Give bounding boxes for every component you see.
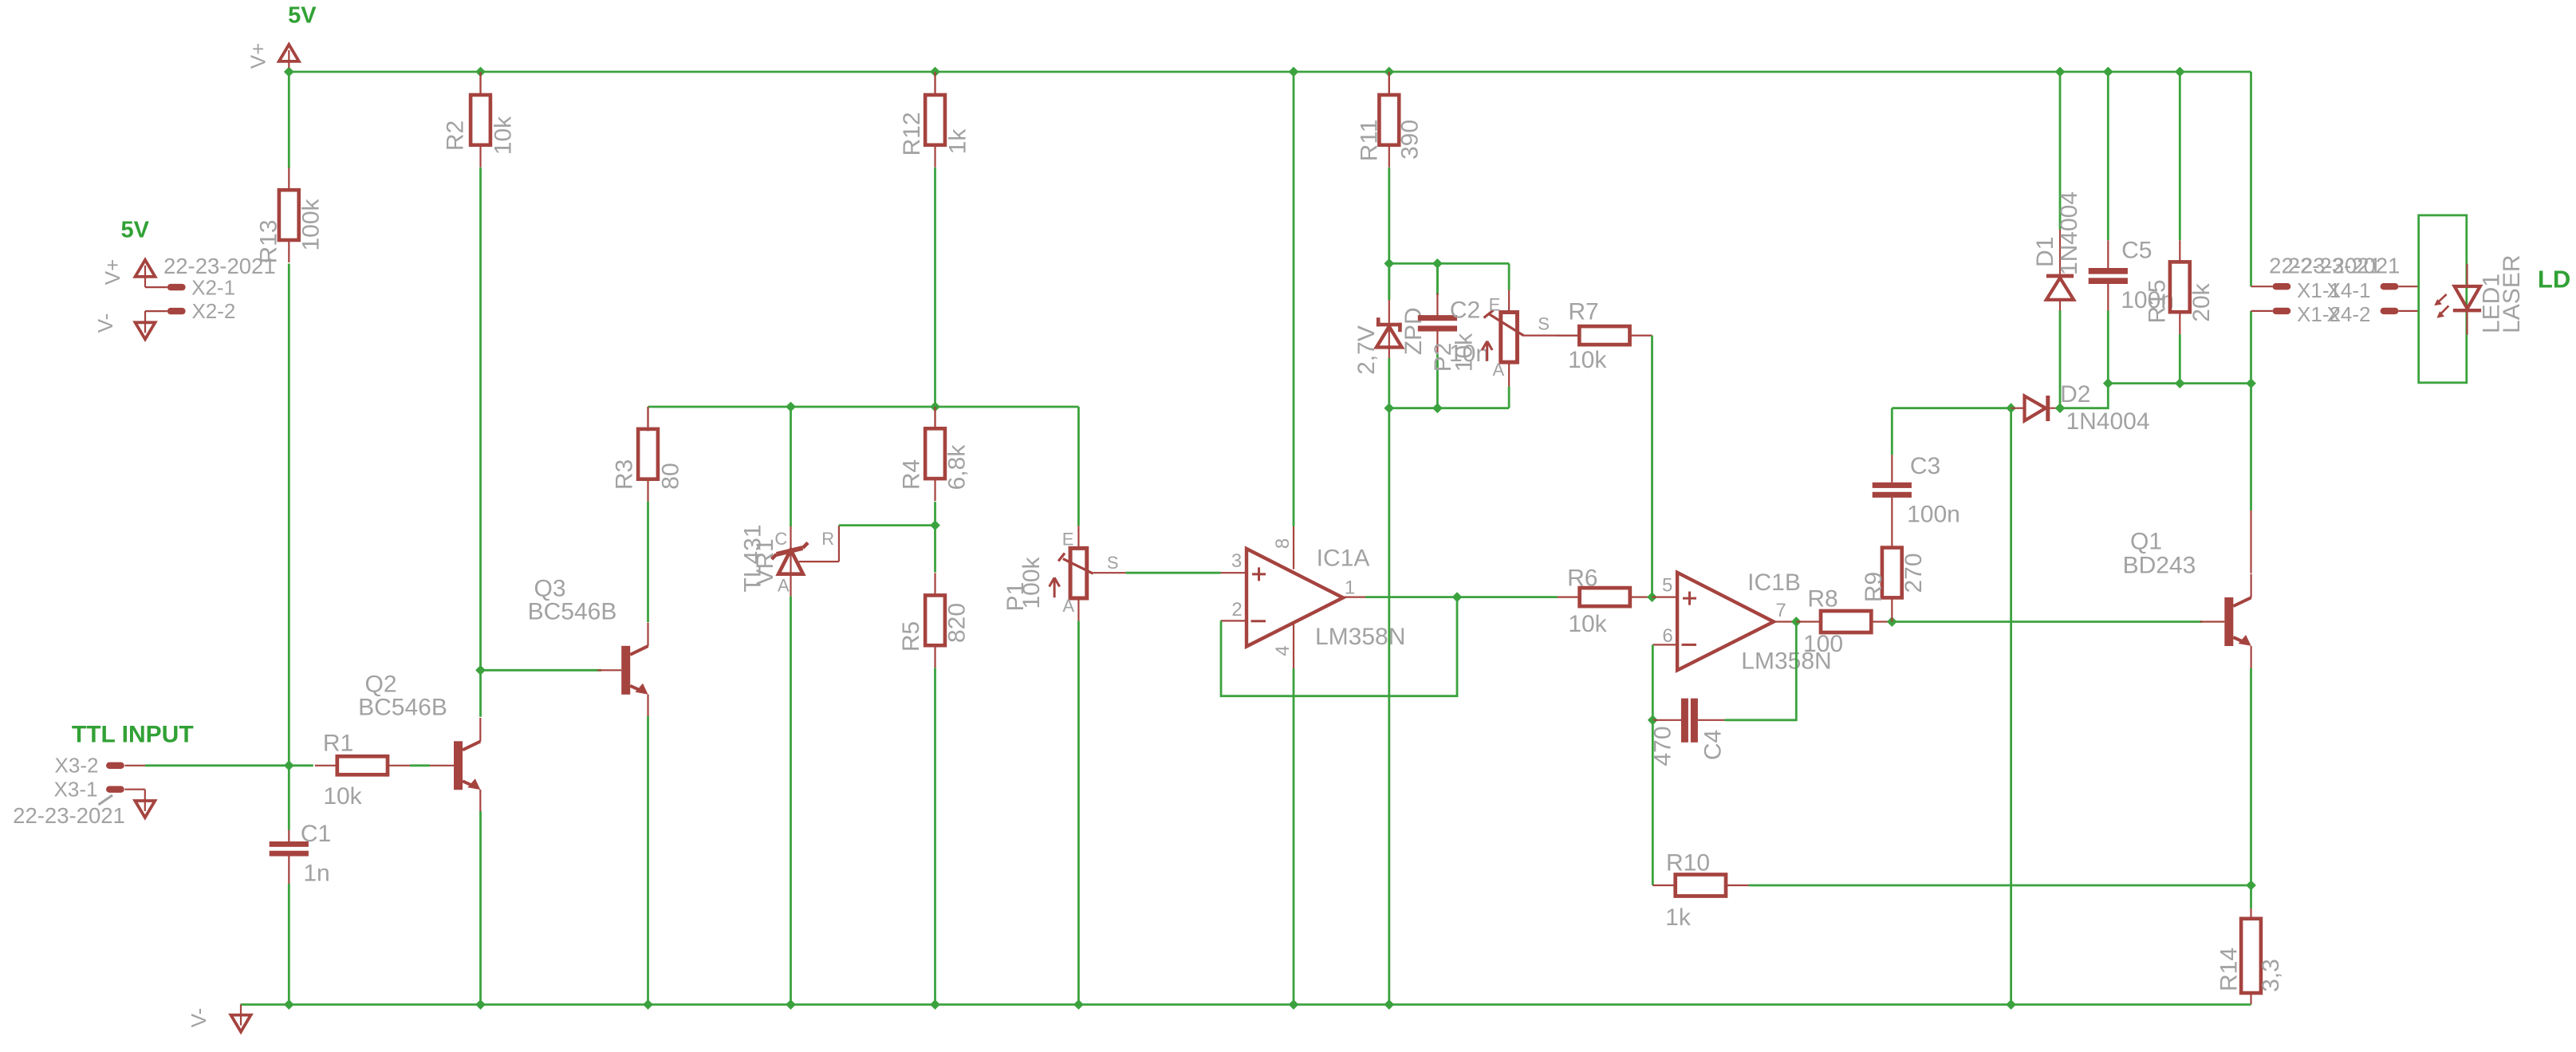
junction top rail / V+ supply (284, 67, 294, 77)
svg-text:R6: R6 (1567, 565, 1597, 591)
pin S of P1 (1093, 572, 1126, 573)
wire R12 column upper (934, 72, 935, 95)
supply V- symbol at X2-2 (136, 322, 156, 339)
wire P2 bottom to zener bottom rail (1508, 387, 1511, 408)
svg-text:3,3: 3,3 (2258, 959, 2284, 992)
junction R8/R9/Q1 base node (1887, 617, 1897, 627)
svg-text:5: 5 (1662, 574, 1672, 596)
wire C5 column upper (2107, 72, 2109, 240)
junction mid rail / TL431 (786, 402, 796, 412)
resistor R13 (288, 167, 290, 190)
wire Q2 emitter to ground rail (479, 811, 482, 1004)
resistor R6 (1558, 596, 1580, 597)
svg-text:R9: R9 (1861, 572, 1887, 602)
svg-text:R12: R12 (899, 112, 925, 156)
junction LD rail / X column (2246, 378, 2256, 388)
junction ground rail / Q2 (475, 999, 486, 1010)
wire TL431 anode to ground rail (790, 597, 792, 1005)
pin wire X4-1 to X column (2251, 286, 2273, 287)
connector pin X1-1/X4-1 left (2273, 283, 2291, 290)
wire zener to bottom node (1388, 358, 1390, 408)
pin wire X4-2 to X column (2251, 310, 2273, 312)
pin 5 of IC1B (1652, 596, 1678, 597)
svg-text:R7: R7 (1568, 299, 1598, 325)
supply V- symbol (ground rail) (240, 1005, 242, 1015)
svg-text:22-23-2021: 22-23-2021 (163, 254, 276, 278)
svg-text:1k: 1k (945, 128, 971, 155)
capacitor C1 (288, 766, 290, 830)
resistor R9 (1882, 548, 1902, 598)
svg-text:R11: R11 (1357, 120, 1383, 162)
connector pin X2-1 (167, 284, 186, 290)
wire LD rail drop to D2 row (2060, 384, 2108, 408)
svg-text:22-23-2021: 22-23-2021 (13, 803, 125, 828)
svg-text:10k: 10k (1568, 347, 1607, 373)
junction IC1A output (1452, 592, 1463, 602)
junction C4 left node (1648, 715, 1658, 725)
svg-text:C3: C3 (1910, 453, 1940, 479)
wire zener bottom rail (1389, 407, 1509, 409)
wire zener branch top (R11 to P2) (1389, 262, 1509, 265)
pin 2 of IC1A (1221, 620, 1247, 621)
svg-text:R1: R1 (323, 731, 353, 757)
junction TTL node (284, 760, 294, 770)
capacitor C3 (1891, 455, 1893, 482)
svg-text:V+: V+ (100, 259, 124, 286)
supply V+ symbol at X2-1 (136, 260, 156, 277)
svg-text:VR1: VR1 (752, 538, 778, 585)
diode D2 1N4004 (2011, 408, 2024, 409)
svg-text:C5: C5 (2121, 237, 2152, 263)
wire R3 to Q3 collector (647, 502, 649, 622)
pin wire X2-1 to V+ (144, 278, 146, 287)
connector pin X3-1 (106, 786, 124, 793)
svg-text:2: 2 (1231, 599, 1242, 621)
wire R1 to Q2 base (410, 764, 430, 766)
wire IC1A pin4 column (V-) (1293, 668, 1295, 1005)
transistor Q1 BD243 (2250, 510, 2251, 573)
svg-text:100: 100 (1803, 631, 1843, 657)
pin wire X2-2 to V- (145, 310, 167, 312)
svg-text:C2: C2 (1450, 297, 1480, 324)
svg-text:3: 3 (1231, 550, 1242, 572)
junction Q3 base tap (475, 665, 486, 676)
pin wire X4-1 to LED box (2398, 286, 2418, 287)
svg-text:BC546B: BC546B (528, 599, 617, 625)
svg-text:X3-1: X3-1 (54, 778, 98, 802)
svg-text:IC1A: IC1A (1317, 546, 1370, 572)
diode D1 1N4004 (2059, 230, 2061, 274)
svg-text:820: 820 (944, 603, 971, 643)
wire R2 column upper (479, 72, 481, 95)
junction ground rail / R5 (930, 999, 940, 1010)
wire LD rail (2108, 382, 2251, 384)
svg-text:R15: R15 (2145, 279, 2171, 323)
op-amp IC1A (1247, 549, 1343, 647)
junction top rail / IC1A pin8 column (1289, 67, 1299, 77)
junction mid rail / R4 (930, 402, 940, 412)
svg-text:100k: 100k (298, 198, 325, 250)
svg-text:R2: R2 (443, 120, 469, 151)
connector pin X2-2 (167, 308, 186, 314)
resistor R14 (2250, 908, 2251, 919)
svg-text:5V: 5V (121, 218, 150, 243)
pin 3 of IC1A (1221, 572, 1247, 573)
svg-text:LM358N: LM358N (1315, 624, 1405, 650)
svg-text:1N4004: 1N4004 (2066, 408, 2149, 435)
wire P1 wiper to IC1A pin3 (1125, 572, 1220, 574)
wire IC1A output to R6 (1365, 596, 1457, 598)
potentiometer P2 (1508, 263, 1511, 290)
pin 1 of IC1A (1343, 596, 1365, 597)
svg-text:10k: 10k (1451, 333, 1478, 372)
zener diode ZPD 2,7V (1388, 263, 1390, 300)
svg-text:E: E (1062, 529, 1074, 549)
svg-text:8: 8 (1272, 538, 1294, 549)
junction zener top / C2 (1432, 258, 1443, 269)
junction IC1B output (1791, 617, 1802, 627)
LED LED1 inside module (2466, 264, 2468, 286)
wire mid rail (R3/TL431/R4/R12/P1 row) (648, 406, 1079, 408)
svg-text:LASER: LASER (2499, 255, 2525, 333)
resistor R15 (2179, 240, 2180, 262)
svg-text:R10: R10 (1666, 849, 1710, 876)
stray mark near X3-1 (99, 795, 113, 805)
svg-text:4: 4 (1272, 645, 1294, 656)
junction R6/R7/IC1B+ node (1647, 592, 1657, 602)
svg-text:Q1: Q1 (2130, 529, 2162, 555)
svg-text:R8: R8 (1807, 586, 1837, 613)
wire R12 to mid rail (934, 167, 936, 407)
pin 7 wire to R8 (1796, 621, 1821, 622)
wire C4 right to IC1B output (1724, 622, 1796, 720)
pin 4 of IC1A (1293, 623, 1294, 668)
resistor R10 (1652, 885, 1676, 886)
junction top rail / R2 (475, 67, 486, 77)
svg-text:X4-1: X4-1 (2327, 278, 2371, 302)
svg-text:X4-2: X4-2 (2327, 302, 2371, 326)
junction LD rail / C5 (2103, 378, 2113, 388)
junction top rail / R11 (1384, 67, 1394, 77)
wire X3-2 to R1 node (124, 765, 145, 766)
resistor R4 (934, 407, 935, 429)
junction ground rail / zener column (1384, 999, 1394, 1010)
junction ground rail / VR1 (786, 999, 796, 1010)
junction top rail / R12 (930, 67, 940, 77)
resistor R7 (1557, 335, 1579, 337)
svg-text:22-23-2021: 22-23-2021 (2288, 254, 2401, 278)
module box LED1 LASER (2419, 215, 2467, 383)
junction D2 anode node (2006, 403, 2016, 413)
op-amp IC1B (1677, 573, 1774, 671)
svg-text:270: 270 (1900, 553, 1927, 593)
pin 6 of IC1B (1652, 644, 1677, 645)
svg-text:1n: 1n (303, 860, 329, 886)
light arrows of LED1 (2438, 294, 2446, 301)
wire P1 bottom to ground rail (1077, 621, 1080, 1005)
svg-text:E: E (1489, 295, 1501, 315)
wire C3 column from D2 row (1891, 408, 1893, 455)
svg-text:2,7V: 2,7V (1353, 325, 1380, 375)
svg-text:V-: V- (187, 1008, 211, 1028)
svg-text:390: 390 (1397, 120, 1424, 160)
svg-text:R5: R5 (898, 621, 924, 652)
svg-text:R4: R4 (898, 459, 924, 490)
svg-text:V-: V- (93, 313, 117, 333)
junction zener bottom / zener (1384, 403, 1394, 413)
resistor R12 (934, 73, 935, 95)
junction top rail / D1 (2055, 67, 2066, 77)
svg-text:C1: C1 (301, 821, 331, 847)
svg-text:100n: 100n (1907, 501, 1960, 527)
wire IC1B pin6 to C4 node (1652, 644, 1654, 719)
pin 7 of IC1B (1774, 621, 1796, 622)
svg-text:R3: R3 (612, 459, 638, 490)
wire C1 to ground rail (288, 884, 290, 1005)
junction D2 cathode / D1 (2055, 403, 2066, 413)
pin wire X3-1 to V- (124, 789, 144, 790)
capacitor C5 (2107, 240, 2109, 268)
capacitor C2 (1436, 263, 1439, 295)
wire Q1 emitter to R14 node (2250, 668, 2252, 885)
svg-text:6,8k: 6,8k (944, 444, 971, 491)
pin R of VR1 (799, 561, 839, 562)
wire D1 to D2 cathode (2059, 311, 2062, 408)
junction R14 top node (2246, 881, 2256, 891)
wire D1 column upper (2059, 72, 2062, 230)
junction top rail / R15 (2175, 67, 2185, 77)
wire Q2 collector node to Q3 base (481, 669, 602, 672)
svg-text:7: 7 (1775, 600, 1786, 621)
svg-text:A: A (1492, 360, 1504, 380)
svg-text:A: A (1062, 596, 1074, 616)
junction zener top / R11 (1384, 258, 1394, 269)
potentiometer P1 (1077, 526, 1079, 548)
junction LD rail / R15 (2175, 378, 2185, 388)
junction ground rail / C1 (284, 999, 294, 1010)
pin 8 of IC1A (1293, 526, 1294, 569)
wire R13 column to TTL node (288, 264, 290, 766)
svg-text:V+: V+ (246, 43, 270, 69)
transistor Q3 (621, 646, 630, 695)
wire V+ top rail (289, 71, 2251, 73)
svg-text:BC546B: BC546B (358, 695, 447, 721)
junction zener bottom / C2 (1432, 403, 1443, 413)
svg-text:IC1B: IC1B (1747, 569, 1801, 596)
transistor Q2 (454, 741, 463, 790)
svg-text:BD243: BD243 (2123, 553, 2196, 579)
junction ground rail / Q3 (643, 999, 653, 1010)
wire X column (X4-2 to Q1 collector) (2250, 311, 2252, 510)
shunt reference VR1 TL431 (790, 526, 791, 574)
wire VR1 R pin to R4/R5 node (839, 524, 935, 526)
junction top rail / C5 (2103, 67, 2113, 77)
wire D2 node down to ground rail (2010, 408, 2012, 1005)
resistor R11 (1388, 73, 1390, 95)
wire D2 anode row (1892, 407, 2011, 409)
wire C4 node down to R10 (1652, 720, 1654, 885)
resistor R5 (934, 573, 935, 595)
svg-text:X2-2: X2-2 (191, 299, 235, 323)
pin wire X4-2 to LED box (2398, 310, 2418, 312)
resistor R8 (1821, 611, 1871, 632)
resistor R2 (479, 73, 481, 95)
svg-text:6: 6 (1662, 625, 1672, 647)
connector pin X3-2 (106, 762, 124, 769)
wire ground rail (241, 1003, 2251, 1006)
resistor R3 (647, 407, 648, 431)
wire R15 to LD rail (2179, 334, 2181, 384)
wire C5 to LD rail (2107, 311, 2109, 384)
wire R15 column upper (2179, 72, 2181, 240)
pin S of P2 to R7 (1523, 335, 1579, 337)
svg-text:X2-1: X2-1 (191, 276, 235, 300)
svg-text:R: R (821, 529, 834, 549)
wire IC1A pin8 column (V+) (1293, 72, 1295, 526)
wire R11 column upper (1388, 72, 1390, 95)
wire R7 to IC1B+ node (1651, 336, 1653, 597)
svg-text:20k: 20k (2188, 282, 2215, 321)
supply V- symbol at X3-1 (135, 801, 155, 818)
svg-text:1k: 1k (1665, 904, 1692, 931)
wire R4 to node (934, 502, 936, 526)
wire IC1A feedback (1221, 597, 1457, 696)
svg-text:D2: D2 (2060, 381, 2090, 408)
wire zener column to ground rail (1388, 408, 1390, 1005)
junction ground rail / P1 (1073, 999, 1084, 1010)
svg-text:C4: C4 (1700, 730, 1727, 760)
wire Q3 emitter to ground rail (647, 716, 649, 1005)
svg-text:X3-2: X3-2 (55, 753, 99, 777)
wire R11 to zener node (1388, 167, 1390, 263)
capacitor C4 (1652, 719, 1681, 721)
wire R13 column upper (288, 72, 290, 168)
svg-text:1: 1 (1345, 577, 1355, 599)
svg-text:S: S (1538, 313, 1550, 333)
svg-text:R14: R14 (2216, 948, 2243, 991)
wire R5 to ground rail (934, 668, 936, 1004)
junction R4/R5/VR1-R node (930, 520, 940, 530)
svg-text:S: S (1107, 553, 1119, 573)
svg-text:A: A (778, 575, 790, 595)
svg-text:10k: 10k (490, 116, 517, 155)
connector pin X1-2/X4-2 left (2273, 308, 2291, 314)
wire R2 to Q2 collector (479, 167, 482, 717)
junction ground rail / IC1A pin4 (1289, 999, 1299, 1010)
svg-text:5V: 5V (288, 2, 317, 28)
svg-text:80: 80 (658, 463, 684, 489)
wire X column (V+ to X4-1) (2250, 72, 2252, 286)
wire R14 node down (2250, 885, 2252, 908)
connector pin X4-1 right (2381, 283, 2399, 290)
wire R10 to R14 top node (1749, 885, 2251, 887)
svg-text:1N4004: 1N4004 (2056, 191, 2082, 275)
svg-text:10k: 10k (1568, 611, 1607, 637)
svg-text:10k: 10k (323, 783, 362, 810)
wire node to R5 (934, 526, 936, 573)
wire mid rail corner down to P1 (1077, 407, 1080, 526)
wire C2 to bottom node (1436, 353, 1439, 408)
supply V+ symbol (top left) (279, 45, 299, 61)
resistor R1 (315, 765, 337, 766)
svg-text:100k: 100k (1018, 556, 1045, 609)
wire base node to Q1 (1892, 621, 2202, 623)
connector pin X4-2 right (2381, 308, 2399, 314)
arrow annotation of P1 (1054, 578, 1056, 598)
svg-text:LD: LD (2538, 265, 2570, 293)
svg-text:TTL INPUT: TTL INPUT (72, 722, 194, 748)
wire TTL node to R1 (289, 764, 313, 766)
arrow annotation of P2 (1486, 341, 1488, 361)
svg-text:D1: D1 (2032, 237, 2058, 267)
junction ground rail / D2 node (2006, 999, 2016, 1010)
wire TL431 cathode column (790, 407, 792, 526)
